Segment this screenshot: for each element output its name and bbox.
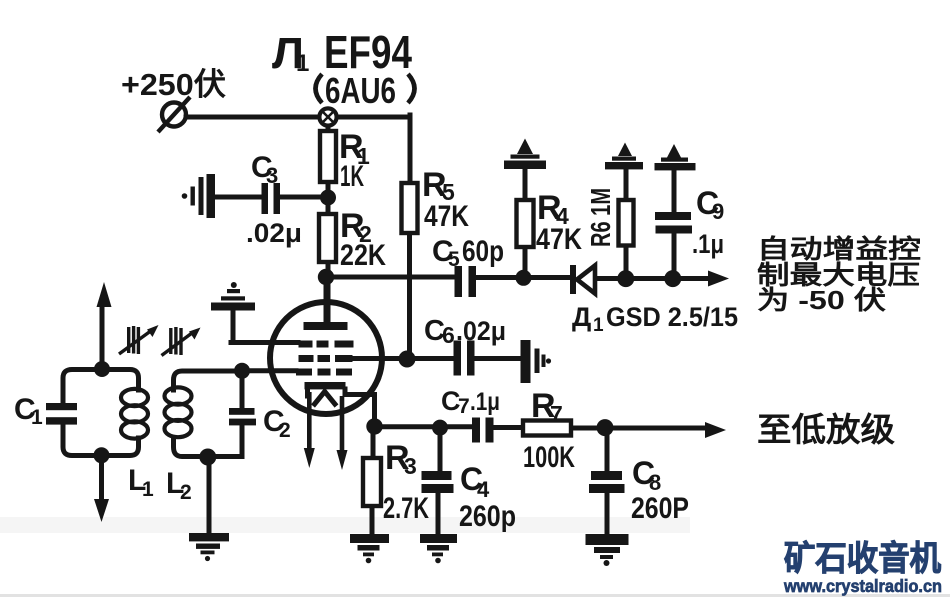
- svg-text:.02μ: .02μ: [456, 316, 506, 346]
- svg-text:.1μ: .1μ: [692, 229, 724, 259]
- svg-text:+250伏: +250伏: [121, 67, 226, 102]
- svg-text:5: 5: [448, 248, 460, 271]
- svg-text:3: 3: [266, 163, 278, 188]
- svg-text:.02μ: .02μ: [246, 218, 302, 248]
- svg-text:GSD 2.5/15: GSD 2.5/15: [606, 302, 738, 332]
- svg-text:7: 7: [550, 401, 563, 427]
- svg-text:100K: 100K: [523, 441, 575, 474]
- svg-text:1: 1: [296, 50, 309, 77]
- svg-text:Д: Д: [572, 302, 591, 332]
- svg-text:2: 2: [180, 481, 192, 504]
- svg-text:为 -50 伏: 为 -50 伏: [757, 285, 886, 315]
- svg-text:.1μ: .1μ: [470, 388, 500, 416]
- svg-text:1: 1: [31, 406, 43, 429]
- svg-text:9: 9: [712, 199, 724, 224]
- svg-text:260p: 260p: [459, 500, 516, 533]
- svg-text:至低放级: 至低放级: [757, 411, 895, 448]
- svg-text:47K: 47K: [424, 200, 469, 233]
- svg-text:47K: 47K: [536, 223, 582, 256]
- svg-text:1K: 1K: [340, 160, 364, 193]
- svg-text:R6 1M: R6 1M: [585, 188, 616, 247]
- svg-text:60p: 60p: [462, 235, 504, 268]
- svg-text:3: 3: [404, 453, 417, 479]
- svg-text:6AU6: 6AU6: [325, 70, 396, 111]
- svg-text:矿石收音机: 矿石收音机: [784, 540, 941, 578]
- svg-text:6: 6: [442, 322, 455, 348]
- svg-text:260P: 260P: [631, 492, 689, 525]
- svg-text:1: 1: [142, 478, 154, 501]
- svg-text:2.7K: 2.7K: [383, 492, 429, 525]
- svg-text:4: 4: [477, 477, 490, 502]
- svg-text:2: 2: [279, 419, 291, 442]
- svg-text:7: 7: [458, 395, 470, 418]
- svg-text:22K: 22K: [340, 239, 386, 272]
- svg-text:1: 1: [593, 315, 604, 336]
- svg-text:www.crystalradio.cn: www.crystalradio.cn: [783, 576, 942, 596]
